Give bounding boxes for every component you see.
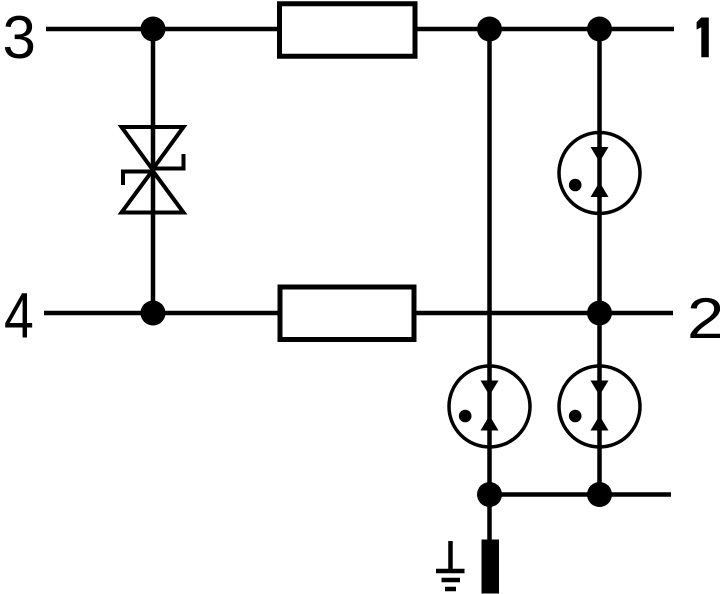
gas discharge tube F2 (mid column, lower) [449,366,530,447]
wire: vertical node A through suppressor diode to node D [151,29,156,313]
suppressor diode V1 (bidirectional TVS) [122,127,184,213]
wire: resistor R2 to terminal 2 (crosses mid column) [414,311,673,316]
wire: node F to PE electrode [487,495,492,542]
wire: terminal 3 lead [46,27,153,32]
terminal label 1 [697,18,709,58]
wire: vertical right column node C to node E [597,29,602,313]
resistor R1 (top) [280,4,416,57]
resistor R2 (lower) [280,287,414,340]
wire: resistor R1 to terminal 1 [415,27,674,32]
wire: terminal 4 lead [44,311,153,316]
svg-text:2: 2 [687,286,720,350]
wire: node D to resistor R2 [153,311,280,316]
gas discharge tube F1 (right column, upper) [559,133,640,214]
svg-text:4: 4 [4,281,34,351]
junction node E (mid, right column) [587,301,612,326]
junction node C (top, right column) [587,17,612,42]
earth ground symbol [436,541,465,589]
junction node B (top, mid column) [477,17,502,42]
wire: node A to resistor R1 [153,27,279,32]
wire: vertical right column node E to node G [597,313,602,495]
gas discharge tube F3 (right column, lower) [559,366,640,447]
junction node A (terminal 3 / TVS tap) [141,17,166,42]
wire: ground bus (node F to right stub) [490,492,672,497]
wire: vertical mid column node B to ground bus [487,29,492,495]
junction node G (ground bus, right column) [587,482,612,507]
svg-text:3: 3 [3,4,36,71]
junction node F (ground bus, mid column) [477,482,502,507]
junction node D (terminal 4 / TVS tap) [141,301,166,326]
PE electrode bar [482,540,500,594]
